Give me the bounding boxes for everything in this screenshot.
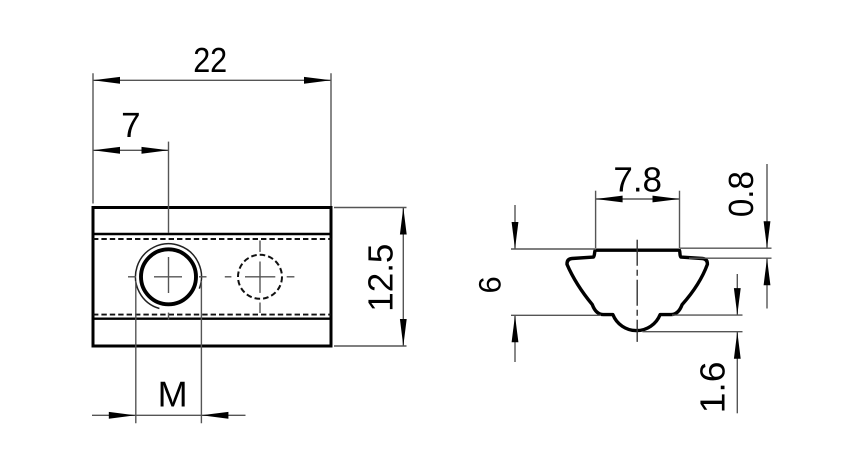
dimension M arrow left xyxy=(109,412,136,419)
svg-text:M: M xyxy=(158,373,188,414)
dimension 0.8 arrow top xyxy=(764,221,771,248)
dimension 7.8 extension line left xyxy=(595,191,597,248)
dimension 1.6 lower tail xyxy=(736,332,738,414)
dimension 1.6 extension line bottom xyxy=(642,331,742,333)
dimension 22 line xyxy=(93,79,331,81)
dimension 0.8 extension line top xyxy=(680,247,772,249)
svg-text:7.8: 7.8 xyxy=(613,161,662,200)
svg-text:12.5: 12.5 xyxy=(362,244,401,312)
dimension 12.5 line xyxy=(402,208,404,347)
tapped hole thread arc xyxy=(135,244,201,309)
dimension 22 extension line left xyxy=(92,73,94,203)
profile vertical centerline xyxy=(636,240,638,342)
dimension 12.5 extension line top xyxy=(334,207,407,209)
chamfer edge line bottom xyxy=(93,318,331,320)
chamfer edge line top xyxy=(93,233,331,235)
dimension 0.8 lower tail xyxy=(766,258,768,308)
dimension 0.8 arrow bottom xyxy=(764,258,771,285)
svg-text:22: 22 xyxy=(193,41,227,80)
tapped hole minor circle xyxy=(141,249,196,304)
slot nut profile outline xyxy=(567,250,707,330)
dimension 6 arrow bottom xyxy=(512,315,519,342)
dimension 7 arrow right xyxy=(142,147,169,154)
hole 2 horizontal centerline xyxy=(225,276,295,278)
dimension 0.8 extension line bottom xyxy=(689,257,772,259)
dimension M line middle xyxy=(136,414,202,416)
second hole dashed circle xyxy=(238,255,282,299)
dimension 0.8 upper tail xyxy=(766,164,768,248)
dimension 12.5 extension line bottom xyxy=(334,345,407,347)
hole 1 horizontal centerline xyxy=(128,276,207,278)
dimension 6 measure line bottom xyxy=(511,314,601,316)
hidden edge dashed line bottom xyxy=(93,314,331,316)
dimension M extension line right xyxy=(200,281,202,423)
hole 2 vertical centerline xyxy=(259,241,261,314)
dimension 7.8 arrow right xyxy=(653,196,680,203)
svg-text:7: 7 xyxy=(121,106,140,145)
svg-text:6: 6 xyxy=(473,276,508,293)
svg-text:0.8: 0.8 xyxy=(722,171,761,217)
hidden edge dashed line top xyxy=(93,238,331,240)
dimension 6 measure line top xyxy=(511,248,596,250)
dimension 7 line xyxy=(93,149,169,151)
dimension 7 arrow left xyxy=(93,147,120,154)
dimension 6 lower tail xyxy=(514,315,516,362)
dimension 7.8 arrow left xyxy=(596,196,623,203)
dimension M line right tail xyxy=(201,414,245,416)
dimension M extension line left xyxy=(135,281,137,423)
dimension 6 upper tail xyxy=(514,205,516,249)
dimension 12.5 arrow bottom xyxy=(400,319,407,346)
dimension 22 extension line right xyxy=(330,73,332,206)
svg-text:1.6: 1.6 xyxy=(693,361,732,413)
dimension 1.6 arrow top xyxy=(734,288,741,315)
dimension 7.8 extension line right xyxy=(679,191,681,248)
dimension 22 arrow left xyxy=(93,77,120,84)
dimension 6 arrow top xyxy=(512,222,519,249)
dimension 22 arrow right xyxy=(304,77,331,84)
hole 1 vertical centerline xyxy=(168,142,170,320)
dimension 1.6 upper tail xyxy=(736,274,738,315)
dimension 1.6 extension line top xyxy=(672,314,743,316)
dimension M arrow right xyxy=(201,412,228,419)
dimension 12.5 arrow top xyxy=(400,208,407,235)
dimension 1.6 arrow bottom xyxy=(734,332,741,359)
nut body outline xyxy=(93,208,331,347)
dimension 7.8 line xyxy=(596,198,680,200)
dimension M line left tail xyxy=(92,414,136,416)
